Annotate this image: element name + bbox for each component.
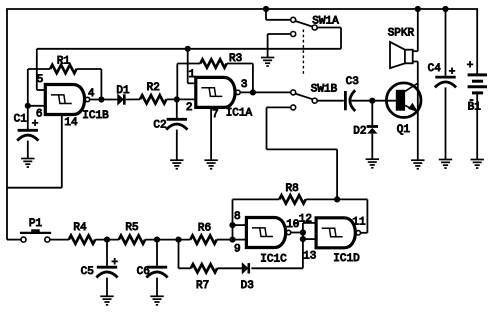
svg-text:C3: C3 (346, 76, 359, 88)
svg-text:R8: R8 (285, 183, 298, 195)
svg-text:R1: R1 (57, 55, 71, 67)
svg-text:2: 2 (186, 102, 193, 114)
svg-text:IC1C: IC1C (260, 253, 287, 265)
svg-text:6: 6 (36, 109, 43, 121)
svg-text:R2: R2 (147, 82, 160, 94)
svg-text:7: 7 (212, 109, 219, 121)
svg-text:SW1A: SW1A (312, 15, 339, 27)
svg-text:Q1: Q1 (397, 124, 411, 136)
svg-text:+: + (467, 60, 474, 72)
svg-text:9: 9 (234, 243, 241, 255)
svg-text:R5: R5 (125, 222, 138, 234)
svg-text:R6: R6 (198, 223, 211, 235)
svg-text:SPKR: SPKR (388, 28, 415, 40)
svg-text:C5: C5 (81, 266, 94, 278)
svg-text:5: 5 (37, 74, 44, 86)
svg-text:+: + (111, 257, 118, 269)
svg-text:C6: C6 (137, 266, 150, 278)
svg-text:14: 14 (64, 117, 78, 129)
svg-text:R7: R7 (196, 280, 209, 292)
svg-text:SW1B: SW1B (311, 84, 338, 96)
svg-text:IC1B: IC1B (82, 110, 109, 122)
svg-text:+: + (449, 66, 456, 78)
svg-text:D2: D2 (353, 126, 366, 138)
svg-text:13: 13 (303, 251, 316, 263)
svg-text:C2: C2 (153, 120, 166, 132)
svg-text:10: 10 (286, 219, 299, 231)
svg-text:R3: R3 (229, 53, 242, 65)
svg-text:4: 4 (88, 88, 95, 100)
svg-text:R4: R4 (73, 222, 87, 234)
svg-text:C4: C4 (428, 63, 442, 75)
svg-text:3: 3 (241, 79, 248, 91)
svg-text:1: 1 (188, 69, 195, 81)
svg-text:11: 11 (352, 216, 366, 228)
svg-text:C1: C1 (14, 114, 28, 126)
svg-text:8: 8 (234, 211, 241, 223)
svg-text:IC1D: IC1D (333, 253, 360, 265)
svg-text:12: 12 (299, 214, 312, 226)
svg-text:-: - (468, 95, 475, 107)
svg-text:D3: D3 (241, 280, 254, 292)
svg-text:D1: D1 (116, 85, 130, 97)
svg-text:P1: P1 (29, 218, 43, 230)
svg-text:IC1A: IC1A (226, 108, 253, 120)
